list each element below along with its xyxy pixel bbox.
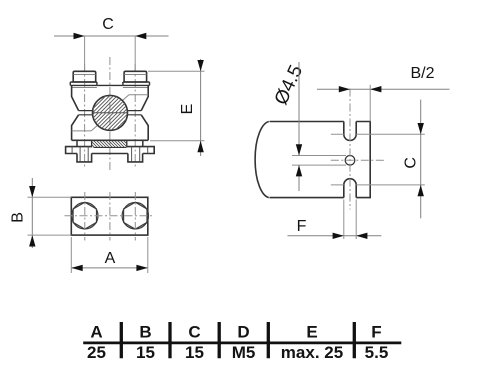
E top extension line [148, 70, 205, 72]
svg-text:E: E [306, 323, 317, 342]
dimension C line [54, 35, 169, 37]
left flange [70, 82, 97, 85]
right screw circle [122, 203, 148, 229]
B top extension line [28, 196, 72, 198]
dia bottom arrow [296, 165, 302, 176]
svg-text:F: F [297, 218, 307, 235]
rod circle [93, 95, 128, 130]
side plate outline [255, 122, 370, 198]
table column bars [121, 322, 354, 358]
foot seam lines [80, 147, 140, 162]
bottom slot [344, 179, 356, 198]
svg-text:max. 25: max. 25 [281, 343, 343, 362]
hole tangent lines [292, 156, 346, 166]
slot vertical centerline [349, 89, 351, 210]
extension/centerline right screw [134, 36, 136, 71]
svg-text:15: 15 [136, 343, 155, 362]
table divider line [83, 341, 401, 344]
F dimension line [288, 235, 382, 237]
horizontal centerline top view [65, 215, 155, 217]
B/2 left arrow [339, 86, 350, 92]
B bottom arrow [29, 235, 35, 246]
right hex socket [124, 202, 147, 229]
F left arrow [333, 233, 344, 239]
B dimension line [31, 178, 33, 248]
level1 right inset edge [142, 140, 144, 146]
vertical centerline mid rect [109, 192, 111, 241]
svg-text:B: B [139, 323, 151, 342]
right screw head [124, 71, 147, 82]
body bottom edge [72, 139, 149, 141]
svg-text:B: B [9, 212, 26, 223]
split line through rod [93, 112, 128, 114]
vertical centerline right hex [134, 192, 136, 241]
waist gap lines left [79, 111, 93, 115]
chamfer lines upper-right [123, 95, 149, 101]
vertical centerline left hex [84, 192, 86, 241]
E dimension line [200, 59, 202, 156]
level2 base plate [66, 147, 155, 154]
central vertical centerline [109, 57, 111, 171]
body left outline [72, 85, 79, 140]
svg-text:F: F [371, 323, 381, 342]
A right extension line [147, 237, 149, 273]
rod hatching [62, 94, 157, 132]
svg-text:C: C [403, 157, 420, 169]
B/2 right arrow [370, 86, 381, 92]
top view rectangle [71, 197, 148, 235]
dimension C right arrow [135, 33, 146, 39]
B/2 right extension line [369, 85, 371, 122]
left foot [77, 154, 92, 162]
svg-text:A: A [90, 323, 102, 342]
C side bottom arrow [418, 185, 424, 196]
F right extension line [355, 200, 357, 240]
A left arrow [71, 265, 82, 271]
slot depth line top [331, 133, 425, 135]
level2 seam lines [72, 147, 148, 154]
F right arrow [356, 233, 367, 239]
right foot [128, 154, 143, 162]
C side dimension line [420, 100, 422, 219]
waist gap lines right [127, 111, 141, 115]
right flange [123, 82, 150, 85]
chamfer lines lower-left [72, 125, 98, 130]
C side top arrow [418, 123, 424, 134]
B top arrow [29, 186, 35, 197]
B bottom extension line [28, 234, 72, 236]
left screw circle [72, 203, 98, 229]
level1 block right edge [126, 140, 128, 147]
svg-text:15: 15 [185, 343, 204, 362]
A right arrow [136, 265, 147, 271]
svg-text:Ø4.5: Ø4.5 [271, 62, 307, 108]
extension/centerline left screw [84, 36, 86, 71]
level1 block left edge [91, 140, 93, 147]
svg-text:25: 25 [87, 343, 106, 362]
svg-text:B/2: B/2 [410, 65, 434, 82]
dimension C left arrow [74, 33, 85, 39]
hole 4.5 [345, 156, 355, 166]
clamped bar hatched block [94, 146, 127, 148]
slot depth line bottom [331, 184, 425, 186]
svg-text:M5: M5 [232, 343, 256, 362]
E bottom arrow [197, 141, 203, 153]
dia dimension line [298, 62, 300, 191]
left hex socket [73, 202, 96, 229]
level1 left inset edge [76, 140, 78, 146]
svg-text:C: C [188, 323, 200, 342]
F left extension line [343, 200, 345, 240]
E bottom extension line [150, 140, 205, 142]
bridge between flanges [97, 84, 123, 86]
B/2 dimension line [317, 88, 450, 90]
svg-text:E: E [179, 104, 196, 115]
top slot [344, 122, 356, 141]
E top arrow [197, 60, 203, 71]
svg-text:A: A [105, 250, 116, 267]
A dimension line [71, 267, 148, 269]
dia top arrow [296, 144, 302, 155]
A left extension line [70, 237, 72, 273]
svg-text:5.5: 5.5 [365, 343, 389, 362]
svg-text:C: C [102, 16, 114, 33]
svg-text:D: D [237, 323, 249, 342]
body right outline [141, 85, 148, 140]
hole horizontal centerline [331, 159, 385, 161]
left screw head [73, 71, 96, 82]
